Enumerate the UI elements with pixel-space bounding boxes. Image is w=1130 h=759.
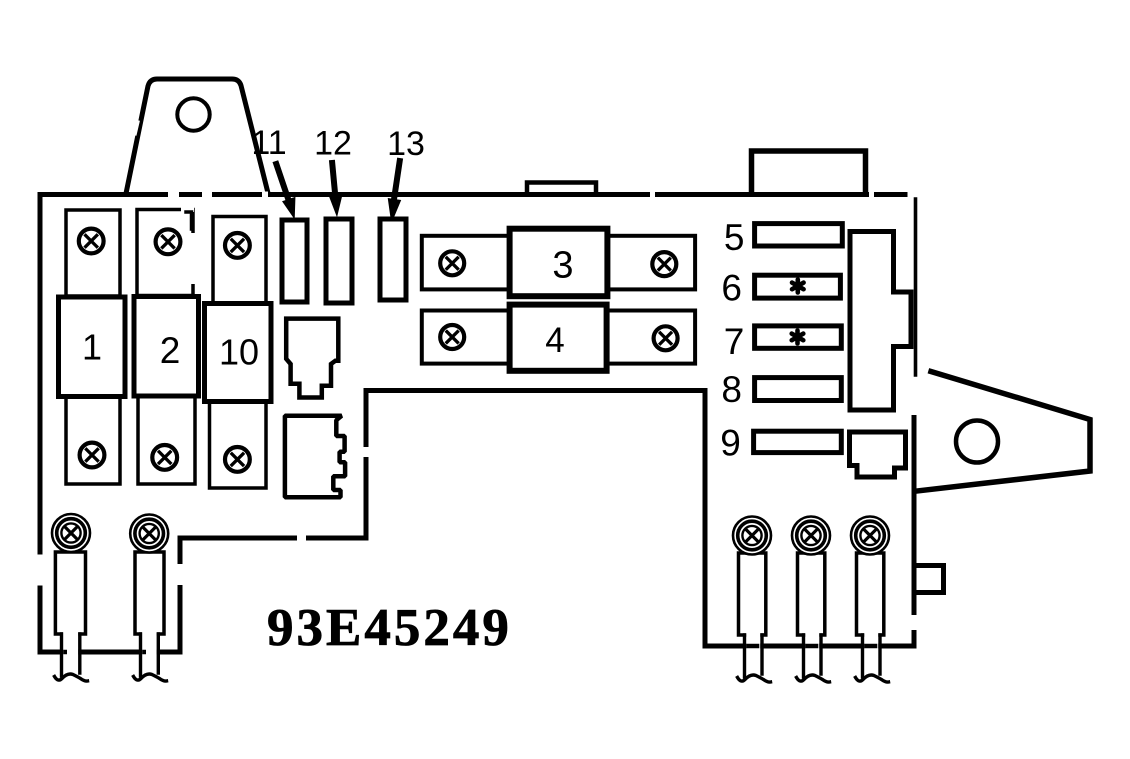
svg-text:93E45249: 93E45249 xyxy=(267,599,512,657)
relay 10 lower screw xyxy=(225,447,250,472)
connector A xyxy=(286,319,338,398)
fusible link 3 right screw xyxy=(652,252,676,276)
fuse 6 asterisk xyxy=(792,280,804,293)
fuse 13 arrow xyxy=(389,161,400,220)
bolt R3 wire xyxy=(856,632,889,682)
svg-text:7: 7 xyxy=(724,321,745,362)
fusible link 3 left screw xyxy=(440,251,464,275)
fuse 8 xyxy=(755,378,842,401)
fusible link 4 left terminal xyxy=(422,311,511,364)
fusible link 3 left terminal xyxy=(422,236,511,290)
bolt R1 wire xyxy=(738,632,771,682)
top small bump xyxy=(527,183,596,194)
relay 1 upper screw xyxy=(79,229,104,254)
svg-text:13: 13 xyxy=(387,125,425,163)
relay 10 upper screw xyxy=(225,233,250,258)
relay 2 lower screw xyxy=(152,445,177,470)
connector C tall xyxy=(850,232,911,411)
top right bump xyxy=(752,151,866,193)
fusible link 4 left screw xyxy=(440,325,464,349)
bolt R3 shank xyxy=(857,553,884,635)
fuse 7 xyxy=(755,326,842,348)
fuse 7 asterisk xyxy=(792,331,804,344)
bolt R3 head xyxy=(851,517,889,555)
svg-text:11: 11 xyxy=(251,124,286,162)
bolt R1 shank xyxy=(739,553,766,635)
relay 10 body xyxy=(205,304,272,402)
svg-text:9: 9 xyxy=(720,423,741,464)
bolt L1 head xyxy=(52,514,90,552)
bolt R2 wire xyxy=(797,632,830,682)
relay 2 upper screw xyxy=(156,229,181,254)
fuse 5 xyxy=(755,224,843,246)
bolt R2 head xyxy=(792,517,830,555)
bolt L2 shank xyxy=(135,552,164,634)
mounting tab xyxy=(127,79,268,191)
svg-text:12: 12 xyxy=(314,125,352,163)
relay 2 upper terminal xyxy=(137,210,193,296)
svg-text:3: 3 xyxy=(552,245,573,287)
fuse 13 xyxy=(380,219,406,300)
bolt L2 wire xyxy=(134,631,167,681)
svg-text:5: 5 xyxy=(724,217,745,258)
fuse 6 xyxy=(755,275,841,298)
fuse 11 arrow xyxy=(276,164,294,217)
fuse 11 xyxy=(282,220,307,302)
right bracket xyxy=(917,372,1090,492)
bolt L2 head xyxy=(130,515,168,553)
relay 10 upper terminal xyxy=(213,217,266,304)
fuse box body outline xyxy=(40,195,916,653)
scan nicks (white) xyxy=(133,79,914,630)
relay 1 lower screw xyxy=(80,443,105,468)
relay 10 lower terminal xyxy=(210,402,267,489)
relay 2 body xyxy=(134,297,199,397)
mounting tab hole xyxy=(177,98,209,130)
fuse 12 arrow xyxy=(330,163,341,214)
svg-text:8: 8 xyxy=(721,369,742,410)
right side tab xyxy=(916,566,944,593)
svg-text:2: 2 xyxy=(160,330,181,371)
svg-text:1: 1 xyxy=(82,327,102,368)
fusible link 4 right terminal xyxy=(607,311,696,364)
svg-text:4: 4 xyxy=(545,321,564,360)
relay 2 corner mark xyxy=(186,212,192,229)
connector B xyxy=(285,416,345,497)
relay 1 upper terminal xyxy=(66,210,120,296)
fusible link 3 body xyxy=(510,229,608,297)
bolt R2 shank xyxy=(798,553,825,635)
right bracket hole xyxy=(956,421,998,463)
fusible link 4 body xyxy=(510,305,607,371)
bolt L1 wire xyxy=(55,631,88,681)
svg-text:10: 10 xyxy=(219,332,259,373)
relay 1 lower terminal xyxy=(66,394,120,484)
bolt R1 head xyxy=(733,517,771,555)
relay 1 body xyxy=(59,297,126,397)
svg-text:6: 6 xyxy=(721,268,742,309)
bolt L1 shank xyxy=(55,552,85,634)
connector D small xyxy=(850,432,906,477)
relay 2 lower terminal xyxy=(138,396,195,484)
fusible link 3 right terminal xyxy=(607,236,695,290)
fuse 12 xyxy=(326,219,352,303)
fuse 9 xyxy=(754,431,842,452)
fusible link 4 right screw xyxy=(654,326,678,350)
